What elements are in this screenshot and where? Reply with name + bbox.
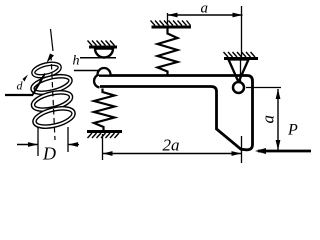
svg-text:a: a: [259, 115, 278, 124]
svg-text:d: d: [17, 79, 24, 93]
svg-text:D: D: [42, 144, 56, 164]
svg-text:h: h: [73, 54, 80, 69]
svg-text:2a: 2a: [163, 136, 180, 155]
svg-text:P: P: [287, 122, 298, 139]
svg-text:a: a: [201, 1, 209, 17]
